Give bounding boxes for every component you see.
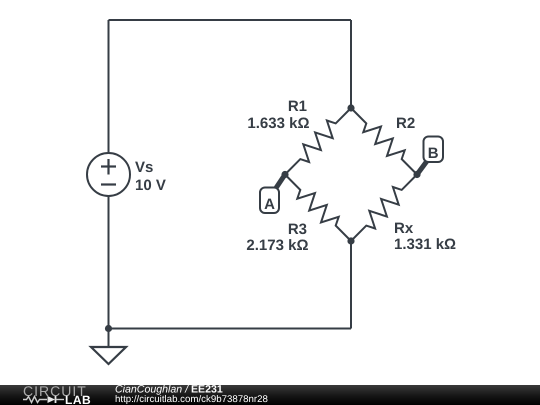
ground	[91, 347, 126, 364]
voltage source Vs	[87, 153, 130, 196]
junction dot ground	[105, 325, 112, 332]
label Rx value	[394, 220, 456, 253]
node B box	[424, 137, 444, 163]
svg-text:R1: R1	[288, 98, 307, 115]
resistor R1	[285, 108, 351, 175]
svg-text:R3: R3	[288, 221, 307, 238]
label R3 value	[246, 221, 308, 254]
wire right vertical (top to bridge top node)	[350, 20, 352, 108]
node A box	[260, 188, 279, 214]
logo diode glyph	[48, 396, 56, 403]
svg-text:1.331 kΩ: 1.331 kΩ	[394, 236, 456, 253]
svg-text:Vs: Vs	[135, 159, 153, 176]
svg-text:2.173 kΩ: 2.173 kΩ	[246, 237, 308, 254]
junction dot bridge top node	[347, 104, 354, 111]
footer bar	[0, 385, 540, 405]
svg-text:B: B	[428, 145, 439, 162]
node A flag connector	[276, 175, 285, 189]
svg-text:1.633 kΩ: 1.633 kΩ	[247, 115, 309, 132]
svg-text:Rx: Rx	[394, 220, 414, 237]
svg-text:http://circuitlab.com/ck9b7387: http://circuitlab.com/ck9b73878nr28	[115, 394, 268, 405]
label Vs value	[135, 159, 166, 194]
svg-text:LAB: LAB	[65, 393, 91, 405]
node B flag connector	[417, 161, 427, 175]
svg-text:R2: R2	[396, 115, 415, 132]
wire bottom horizontal	[109, 328, 352, 330]
label R1 value	[247, 98, 309, 132]
wire left vertical lower (Vs to bottom)	[108, 196, 110, 329]
junction dot bridge right node	[413, 171, 420, 178]
junction dot bridge left node	[281, 171, 288, 178]
wire left vertical upper (top to Vs)	[108, 20, 110, 153]
resistor R3	[285, 175, 351, 242]
wire top horizontal	[109, 19, 352, 21]
svg-text:10 V: 10 V	[135, 177, 166, 194]
logo resistor glyph	[23, 397, 47, 403]
wire bridge bottom node to bottom horizontal	[350, 241, 352, 329]
svg-text:A: A	[264, 196, 275, 213]
resistor Rx	[351, 175, 417, 242]
resistor R2	[351, 108, 417, 175]
junction dot bridge bottom node	[347, 237, 354, 244]
wire ground stub	[108, 329, 110, 348]
